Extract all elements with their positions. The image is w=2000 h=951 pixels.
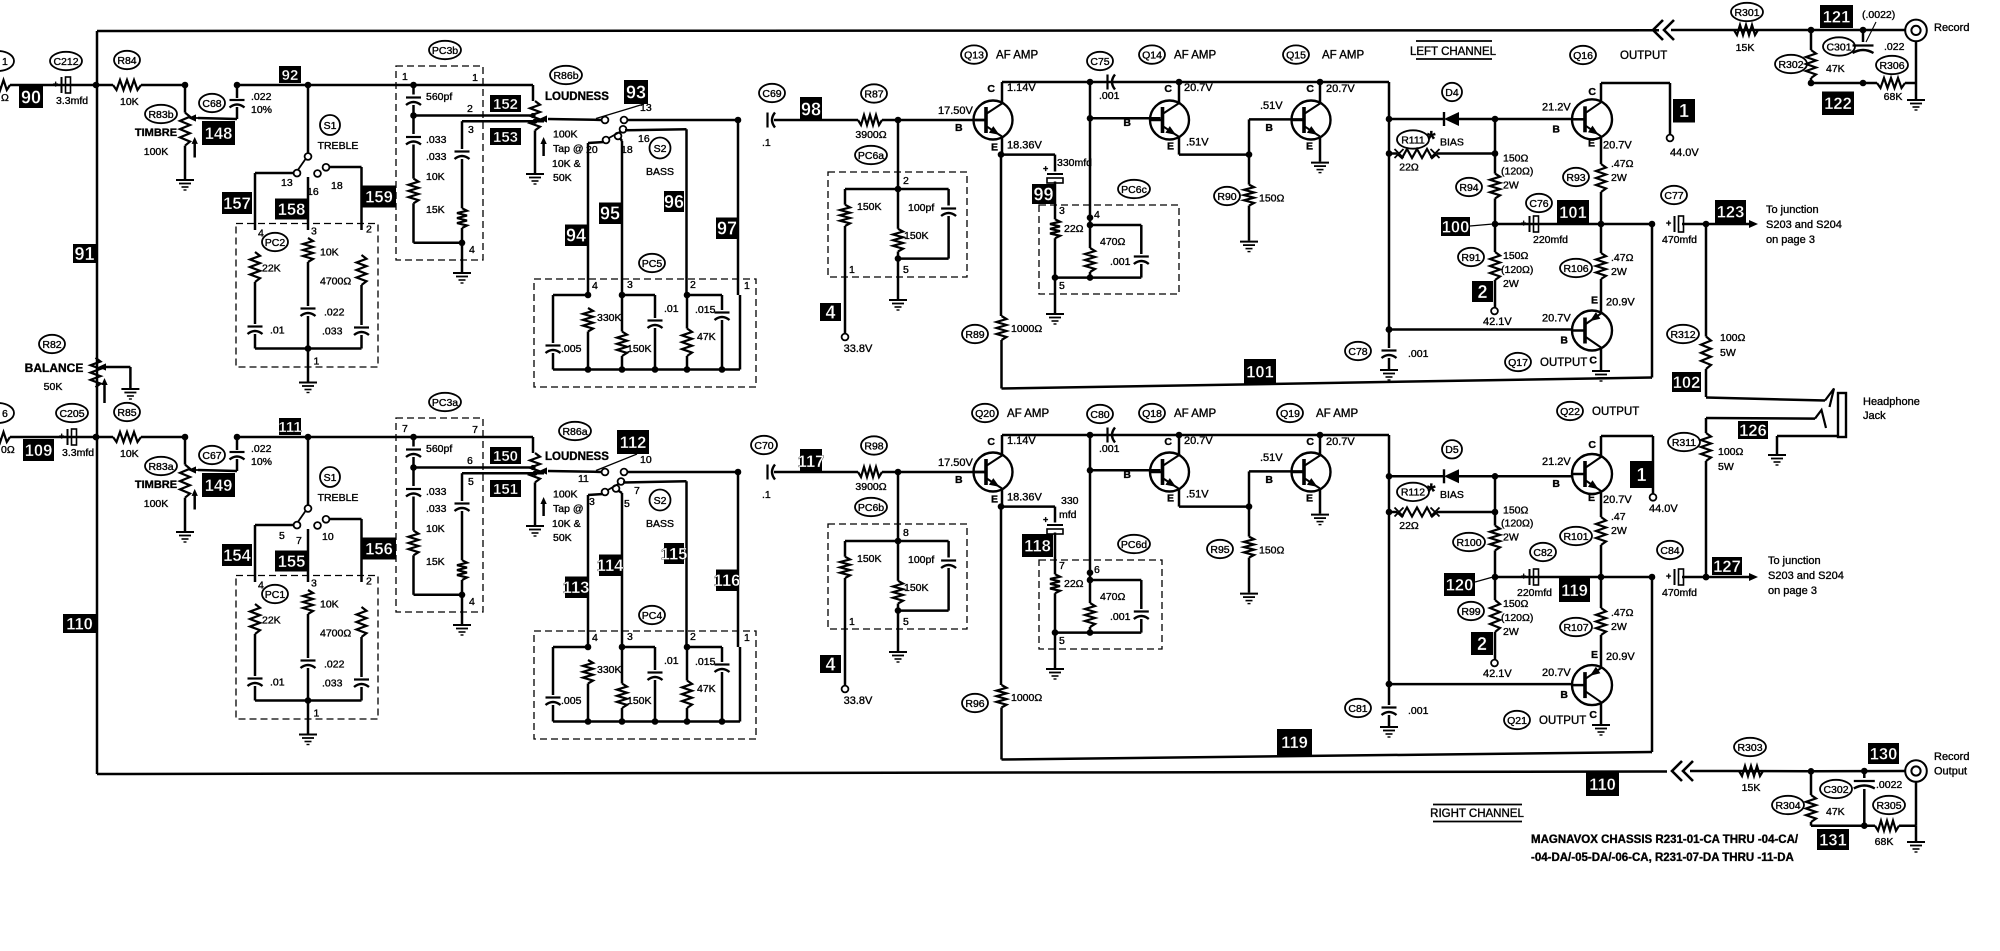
resistor R98 3900 [858,467,882,477]
capacitor .033 in tone board [354,326,369,328]
black tag 101 [1244,359,1276,384]
svg-text:+: + [1666,218,1671,228]
svg-text:R303: R303 [1737,742,1762,754]
wire left border vertical [96,31,99,774]
svg-text:100K: 100K [553,489,578,501]
wire R312 to headphone tip [1706,398,1825,401]
svg-text:C302: C302 [1823,784,1848,796]
svg-text:.47Ω: .47Ω [1611,158,1634,170]
svg-text:150K: 150K [857,201,882,213]
svg-text:99: 99 [1033,185,1053,205]
svg-text:100pf: 100pf [908,202,934,214]
svg-text:150K: 150K [627,695,652,707]
resistor R84 10K [113,80,141,90]
svg-text:33.8V: 33.8V [844,343,873,355]
svg-text:3900Ω: 3900Ω [855,481,886,493]
svg-text:4700Ω: 4700Ω [320,276,351,288]
wire Q17 collector to ground [1600,702,1603,724]
svg-text:2W: 2W [1503,278,1519,290]
svg-text:.01: .01 [664,303,679,315]
svg-text:2W: 2W [1611,266,1627,278]
wire wiper to C67 [198,470,237,471]
svg-text:10K: 10K [426,171,445,183]
wire Q17 base line [1386,681,1393,688]
transistor Q14 AF AMP [1150,101,1189,140]
svg-text:5: 5 [279,530,285,542]
svg-text:116: 116 [714,572,741,590]
svg-text:150K: 150K [627,343,652,355]
svg-text:10K: 10K [320,599,339,611]
switch loudness contacts [594,471,601,474]
svg-text:2: 2 [903,175,909,187]
svg-text:.1: .1 [762,137,771,149]
svg-text:on page 3: on page 3 [1768,585,1817,597]
transistor Q16 OUTPUT upper [1572,99,1612,139]
capacitor C81 .001 [1386,681,1393,688]
resistor 150K in PC5 [617,684,627,709]
svg-text:C: C [1306,83,1314,95]
wire PC5 bottom rail [553,720,740,723]
wire C69 to R87 [774,471,858,474]
svg-text:R99: R99 [1461,606,1480,618]
diode D4 BIAS [1386,116,1393,123]
module PC2 dashed box [236,224,378,368]
ground PC6 [1046,668,1064,670]
wire junction to C68 cap [236,437,239,450]
svg-text:470mfd: 470mfd [1662,234,1697,246]
svg-text:.022: .022 [1884,41,1905,53]
svg-text:15K: 15K [1736,42,1755,54]
svg-text:.015: .015 [695,656,716,668]
module PC1 dashed box [236,576,378,720]
svg-text:50K: 50K [44,381,63,393]
svg-text:153: 153 [493,129,518,146]
svg-text:B: B [1560,335,1568,347]
svg-text:4: 4 [258,228,264,240]
svg-text:S1: S1 [324,472,337,484]
wire record network bottom rail [1811,82,1877,85]
svg-text:5W: 5W [1718,461,1734,473]
svg-text:E: E [1588,492,1595,504]
capacitor .01 in PC5 [654,295,657,318]
svg-text:(.0022): (.0022) [1862,9,1895,21]
svg-text:560pf: 560pf [426,443,452,455]
svg-text:2W: 2W [1611,621,1627,633]
capacitor C82 220mfd [1529,569,1531,585]
wire to timbre pot junction [141,436,185,439]
svg-text:C: C [1589,709,1597,721]
black tag 95 [599,203,621,225]
svg-text:S203 and S204: S203 and S204 [1766,219,1842,231]
wire to ground PC6 [1054,633,1057,668]
svg-text:7: 7 [402,423,408,435]
ground C78 [1380,726,1398,728]
svg-text:4: 4 [469,244,475,256]
svg-text:PC6d: PC6d [1121,539,1147,551]
resistor R85 10K [113,432,141,442]
svg-text:PC2: PC2 [265,237,286,249]
black tag 130 [1868,743,1899,764]
svg-text:TREBLE: TREBLE [318,140,359,152]
capacitor C78 .001 [1386,326,1393,333]
svg-text:20.7V: 20.7V [1542,667,1571,679]
ground loudness pot [526,525,544,527]
svg-text:R106: R106 [1563,263,1588,275]
svg-text:5: 5 [624,498,630,510]
svg-text:Headphone: Headphone [1863,396,1920,408]
terminal 2 42.1V [1472,281,1493,302]
switch S1 label [320,467,340,487]
svg-text:C75: C75 [1090,56,1109,68]
svg-text:2W: 2W [1503,532,1519,544]
svg-text:2: 2 [366,224,372,236]
svg-text:4: 4 [592,632,598,644]
svg-text:Q17: Q17 [1508,357,1528,369]
svg-text:S2: S2 [654,143,667,155]
capacitor C84 470mfd [1674,569,1676,585]
black tag 96 [664,191,684,212]
svg-text:PC3a: PC3a [432,397,458,409]
svg-text:150K: 150K [904,230,929,242]
svg-text:100Ω: 100Ω [1720,332,1746,344]
svg-text:.001: .001 [1099,443,1120,455]
svg-text:114: 114 [597,557,624,575]
wire signal line to treble switch vertical [237,436,308,439]
node 96 partial ellipse [0,403,14,423]
svg-text:C81: C81 [1348,703,1367,715]
svg-text:10K: 10K [320,247,339,259]
svg-text:4: 4 [1094,209,1100,221]
svg-text:44.0V: 44.0V [1649,503,1678,515]
resistor 10K in PC3 [412,145,415,179]
black tag 126 [1738,421,1768,439]
svg-text:C: C [1164,83,1172,95]
svg-text:15K: 15K [426,204,445,216]
svg-text:10: 10 [640,454,652,466]
black tag 92 [279,66,301,83]
svg-text:3: 3 [468,124,474,136]
potentiometer R83a TIMBRE 100K [184,437,187,465]
svg-text:3.3mfd: 3.3mfd [62,447,94,459]
ground tone board [299,734,317,736]
svg-text:on page 3: on page 3 [1766,234,1815,246]
svg-text:C: C [1164,436,1172,448]
resistor 150K right leg [893,229,903,252]
black tag 102 [1672,372,1701,392]
black tag 157 [222,192,252,214]
ground record output [1915,826,1918,841]
capacitor 560pf [412,85,415,95]
svg-text:159: 159 [365,188,393,206]
svg-text:3900Ω: 3900Ω [855,129,886,141]
capacitor .033 lower [461,121,464,149]
svg-text:C80: C80 [1090,409,1109,421]
svg-text:.033: .033 [426,151,447,163]
wire PC5 pin3 node [619,644,626,651]
wire R90 node to Q15 base [1248,471,1251,506]
svg-text:R112: R112 [1401,487,1425,499]
svg-text:47K: 47K [697,331,716,343]
wire collector rail [1002,81,1389,84]
ground loudness pot [526,173,544,175]
black tag 131 [1817,829,1849,850]
wire bottom border [97,772,1667,775]
svg-text:2W: 2W [1503,626,1519,638]
svg-text:152: 152 [493,96,518,113]
svg-text:B: B [1265,474,1273,486]
resistor R93 .47 ohm [1600,136,1603,164]
svg-text:130: 130 [1870,745,1898,763]
svg-text:.001: .001 [1110,256,1131,268]
black tag 153 [490,128,521,145]
svg-text:2: 2 [467,103,473,115]
svg-text:.01: .01 [664,655,679,667]
junction dot balance on signal2 [93,434,100,441]
junction dot at vertical [93,434,100,441]
wire 470 top to .001 cap [1090,224,1141,227]
svg-text:R301: R301 [1734,7,1759,19]
svg-text:B: B [1123,469,1131,481]
svg-text:Output: Output [1934,766,1967,778]
switch S1 blade [298,511,306,523]
capacitor C70 .1 [766,465,768,480]
wire to ground PC6 [1054,278,1057,313]
wire 220mfd rail [1492,574,1499,581]
svg-text:20.7V: 20.7V [1542,313,1571,325]
svg-text:C205: C205 [59,408,84,420]
ground Q15 emitter [1311,162,1329,164]
svg-text:91: 91 [74,244,94,264]
resistor R107 .47 ohm lower [1600,635,1603,667]
svg-text:20.7V: 20.7V [1184,82,1213,94]
capacitor .033 upper [412,116,415,135]
svg-text:R93: R93 [1566,172,1585,184]
black tag 119 [1277,729,1312,755]
capacitor C75 .001 interstage [1106,75,1108,90]
ground Q15 emitter [1311,514,1329,516]
svg-text:Q18: Q18 [1142,408,1162,420]
potentiometer R86a LOUDNESS 100K [532,437,535,453]
resistor 47K [682,329,692,357]
capacitor C68 .022 10% [230,99,245,101]
capacitor .022 in tone board [301,307,316,309]
svg-text:PC3b: PC3b [432,45,458,57]
wiper arrow timbre [191,469,198,471]
svg-text:50K: 50K [553,532,572,544]
svg-text:AF AMP: AF AMP [1174,50,1217,62]
svg-text:AF AMP: AF AMP [1316,408,1359,420]
svg-text:C84: C84 [1660,545,1679,557]
svg-text:5: 5 [1059,280,1065,292]
black tag 91 [73,244,96,263]
ground C78 [1380,369,1398,371]
svg-text:E: E [991,494,998,506]
svg-text:150K: 150K [857,553,882,565]
wire 150K to 100pf bottom [898,609,949,612]
wire to junction arrow [1682,223,1749,226]
wiper arrow timbre [191,117,198,119]
svg-text:AF AMP: AF AMP [1322,50,1365,62]
svg-text:7: 7 [472,424,478,436]
svg-text:3: 3 [1059,205,1065,217]
svg-text:Record: Record [1934,751,1969,763]
black tag 100 with leader [1441,217,1470,236]
svg-text:22K: 22K [262,263,281,275]
resistor R302 47K [1810,30,1813,50]
black tag 94 [565,225,587,247]
wire bass contact 18 to PC5 pin3 [618,491,622,494]
svg-text:110: 110 [66,615,93,633]
svg-text:22Ω: 22Ω [1064,223,1084,235]
svg-text:.001: .001 [1408,705,1429,717]
svg-text:117: 117 [798,453,825,471]
svg-text:2: 2 [1477,634,1487,654]
black tag 123 [1715,200,1746,223]
resistor 10K in PC3 [412,497,415,531]
resistor 150K left leg [844,541,847,557]
svg-text:PC6a: PC6a [858,150,884,162]
adjust arrow loudness [542,141,545,156]
svg-text:47K: 47K [1826,63,1845,75]
svg-text:68K: 68K [1875,836,1894,848]
resistor 470 ohm [1089,573,1092,603]
svg-text:R83a: R83a [148,461,173,473]
svg-text:1: 1 [1679,101,1689,121]
svg-text:22K: 22K [262,615,281,627]
svg-text:1: 1 [402,71,408,83]
wire PC5 pin2 node [684,644,691,651]
wire PC5 pin4 node [585,292,592,299]
svg-text:+: + [1043,515,1048,525]
svg-text:BIAS: BIAS [1440,489,1464,501]
switch S1 label [320,115,340,135]
transistor Q20 AF AMP [974,453,1013,492]
svg-text:C301: C301 [1826,41,1851,53]
resistor R306 68K [1877,78,1905,88]
svg-text:1: 1 [2,56,8,68]
ground timbre pot [176,531,194,533]
ground Q17 collector [1592,370,1610,372]
switch S2 bass contacts [618,478,625,485]
svg-text:1: 1 [472,72,478,84]
svg-text:+: + [1666,571,1671,581]
wire Q16 collector stub to terminal 1 [1600,83,1603,102]
svg-text:20.9V: 20.9V [1606,651,1635,663]
resistor R303 15K [1739,766,1763,776]
svg-text:R98: R98 [864,440,883,452]
resistor R312 100ohm 5W [1705,224,1708,337]
module PC3b dashed box [396,66,483,260]
wire right vertical of output loop [1649,221,1656,228]
transistor Q17 OUTPUT lower [1572,311,1612,351]
resistor 330K [583,308,593,332]
svg-text:R100: R100 [1456,537,1481,549]
svg-text:(120Ω): (120Ω) [1501,264,1533,276]
svg-text:S1: S1 [324,120,337,132]
svg-text:B: B [1552,478,1560,490]
svg-text:131: 131 [1819,831,1847,849]
svg-text:20.7V: 20.7V [1603,139,1632,151]
black tag 154 [222,544,252,566]
svg-text:(120Ω): (120Ω) [1501,518,1533,530]
transistor Q19 AF AMP [1292,453,1331,492]
svg-text:2: 2 [1477,282,1487,302]
svg-text:B: B [955,474,963,486]
svg-text:OUTPUT: OUTPUT [1540,357,1587,369]
svg-text:.47Ω: .47Ω [1611,607,1634,619]
ground PC3 [453,272,471,274]
svg-text:Tap @: Tap @ [553,143,584,155]
wire C69 to R87 [774,119,858,122]
svg-text:10K: 10K [120,96,139,108]
resistor 4700 in tone board [357,607,367,637]
svg-text:92: 92 [282,67,299,84]
svg-text:-04-DA/-05-DA/-06-CA, R231-07-: -04-DA/-05-DA/-06-CA, R231-07-DA THRU -1… [1531,852,1794,864]
wire tap pin 2 [410,112,417,119]
resistor input partial 0Ω [0,432,10,442]
svg-text:.005: .005 [561,343,582,355]
capacitor .015 [721,295,724,310]
svg-text:Q16: Q16 [1573,50,1593,62]
resistor 150K left leg [844,189,847,205]
svg-text:3: 3 [311,578,317,590]
wire PC5 pin2 node [684,292,691,299]
ground Q17 collector [1592,724,1610,726]
svg-text:3: 3 [627,279,633,291]
wire R89 to bottom rail [1000,340,1003,389]
black tag 150 [490,447,521,464]
svg-text:Q14: Q14 [1142,49,1162,61]
wire junction to R84 [96,84,113,87]
svg-text:+: + [59,431,64,441]
resistor 10K in tone board [303,238,313,262]
svg-text:C: C [1588,86,1596,98]
wire Q collector to rail [1001,435,1004,456]
transistor Q22 OUTPUT upper [1572,454,1612,494]
svg-text:100K: 100K [144,146,169,158]
capacitor .01 in tone board [248,325,263,327]
resistor R301 15K [1734,25,1758,35]
svg-text:5: 5 [903,616,909,628]
potentiometer R82 BALANCE 50K [91,358,101,388]
svg-text:8: 8 [903,527,909,539]
break marks bottom border [1672,761,1682,781]
svg-text:330K: 330K [597,664,622,676]
wire junction to R85 [96,436,113,439]
capacitor 100pf [947,541,950,558]
svg-text:C: C [1589,355,1597,367]
svg-text:R82: R82 [42,339,61,351]
svg-text:BASS: BASS [646,166,674,178]
svg-text:Q15: Q15 [1286,49,1306,61]
wire junction to PC5 pin1 [735,469,742,476]
svg-text:E: E [991,142,998,154]
switch S1 treble pole contact [305,153,312,160]
wire tone board to ground [307,701,310,734]
wire Q14 emitter to R90 node [1178,489,1181,507]
svg-text:21.2V: 21.2V [1542,101,1571,113]
svg-text:.022: .022 [251,443,272,455]
wire cap to 22ohm [1054,182,1057,220]
wire bass contact 16 to PC5 pin2 [623,481,687,482]
svg-text:.033: .033 [322,326,343,338]
svg-text:10K &: 10K & [552,518,581,530]
wire base line to Q14 [1090,117,1161,120]
svg-text:Ω: Ω [1,92,9,104]
svg-text:96: 96 [664,192,684,212]
resistor R100 150ohm upper [1494,476,1497,525]
svg-text:18: 18 [331,180,343,192]
